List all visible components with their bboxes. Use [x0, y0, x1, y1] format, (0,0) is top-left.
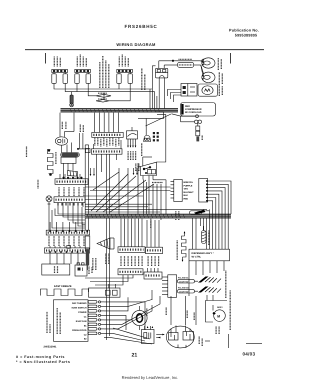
auger motor M3 [213, 310, 226, 322]
timer label column mid [141, 143, 143, 156]
connector J2 [92, 140, 123, 154]
drops band two to strip TS6 [121, 219, 159, 247]
svg-text:POWER: POWER [78, 311, 87, 314]
board pin 2 [88, 305, 104, 308]
strip TS3 pin ticks [58, 203, 82, 206]
inline fuse stack [196, 122, 200, 142]
auger motor enclosure [206, 301, 228, 323]
wire BLK label column [55, 152, 57, 164]
svg-text:04/03: 04/03 [243, 351, 256, 356]
node N power lead [230, 53, 232, 64]
subtitle WIRING DIAGRAM [116, 42, 156, 47]
wire color labels bottom [147, 307, 194, 320]
cold control label [93, 258, 96, 270]
svg-text:EVAP FAN: EVAP FAN [76, 320, 87, 323]
svg-text:GREY: GREY [217, 306, 223, 309]
board pin 4 [88, 314, 104, 317]
svg-text:MAIN SWITCH: MAIN SWITCH [72, 306, 87, 309]
cold control [85, 236, 90, 270]
page number [132, 352, 138, 358]
run capacitor C1 [55, 113, 74, 146]
connector J1 [92, 132, 123, 137]
wires dispenser to switches [196, 261, 224, 275]
strip TS6 labels [121, 256, 159, 266]
wire to timer connector plug [138, 118, 151, 141]
crisper light label [218, 58, 221, 70]
wire H3 right leg [109, 83, 130, 100]
dispenser loop wires right [193, 181, 232, 249]
compressor label [185, 105, 202, 114]
adaptive defrost relay U1 [127, 127, 138, 139]
harness tangle diagonals [91, 172, 154, 212]
dispenser connector P2 [199, 179, 208, 203]
wire relay bends left [167, 90, 181, 103]
ground key symbol [46, 196, 52, 230]
dispenser assembly box [189, 249, 230, 261]
timer connector labels [136, 163, 139, 171]
aux switch box [75, 263, 87, 276]
center air duct heater labels [119, 54, 128, 67]
wire H2 bus [77, 91, 155, 93]
wire YEL-RED boxed label [164, 62, 203, 77]
svg-text:M: M [217, 314, 220, 318]
terminal strip TS7 [118, 269, 162, 279]
terminal strip TS3 [54, 197, 85, 207]
wires terminal block drops [150, 78, 165, 109]
svg-text:* = Non-Illustrated Parts: * = Non-Illustrated Parts [16, 360, 70, 364]
svg-text:21: 21 [132, 352, 138, 358]
water valve to ice maker arrows [156, 334, 165, 339]
strip TS5 pin dots [49, 251, 88, 253]
crisper light LP1 [202, 58, 215, 68]
dispenser wire labels [184, 181, 195, 201]
defrost resistor zigzag [182, 231, 187, 262]
board pin 7 [88, 328, 104, 331]
wire compressor to terminal circles [181, 116, 202, 124]
air damper funnel [97, 238, 114, 249]
solenoid label [208, 231, 210, 246]
run capacitor C1 labels [62, 122, 83, 133]
low ambient switch box [42, 264, 70, 275]
timer exit wires [143, 176, 166, 183]
svg-text:PURPLE: PURPLE [184, 184, 193, 187]
ice maker label [199, 336, 202, 346]
wires board pins to risers [104, 296, 160, 344]
strip TS4 pin dots [49, 230, 88, 232]
splice node SU-100K lower [96, 99, 109, 102]
wire drops band to connector J1 [95, 113, 119, 133]
svg-text:RED: RED [185, 105, 190, 108]
svg-text:W/ OVERLOAD: W/ OVERLOAD [185, 111, 202, 114]
svg-text:FRESH FOOD: FRESH FOOD [72, 329, 87, 332]
wire H3 left leg [118, 83, 120, 89]
svg-text:C1: C1 [84, 315, 88, 318]
power terminal block TB1 [156, 61, 168, 78]
svg-text:TAN: TAN [184, 188, 189, 191]
mullion heater labels [100, 56, 109, 88]
wire band to timer bends [143, 112, 166, 167]
control panel strip TS5 [45, 246, 90, 253]
wire H2 right leg [88, 83, 96, 95]
svg-text:W/ CTRL: W/ CTRL [192, 256, 202, 259]
condenser fan label [219, 85, 222, 96]
wire run to connector circles [146, 114, 199, 126]
svg-text:FCLAM NO: FCLAM NO [178, 287, 189, 290]
condenser fan motor M1 [198, 84, 218, 96]
grey wire label [217, 306, 223, 309]
switches label column [225, 270, 227, 298]
svg-text:RED: RED [184, 198, 189, 201]
dispenser solenoid [202, 226, 207, 244]
footnote non illustrated [16, 360, 70, 364]
svg-text:BRN/YEL: BRN/YEL [184, 181, 194, 184]
connector J2 drops [97, 154, 117, 340]
dispenser micro switch [190, 210, 210, 215]
fast freeze label [54, 285, 72, 288]
footnote fast moving [16, 355, 65, 359]
svg-text:# = Fast-moving Parts: # = Fast-moving Parts [16, 355, 65, 359]
freezer door switch row 1 [178, 277, 222, 284]
H bar wires right of cap [77, 133, 89, 176]
center air duct heater H3 [117, 69, 133, 83]
fuse stack label [201, 135, 203, 140]
splice node SU-100K upper [96, 93, 111, 99]
wire L1 lead-in [152, 66, 155, 89]
defrost thermostat NC box [89, 284, 121, 297]
defrost timer [138, 162, 157, 175]
fast freeze jumper wave [41, 289, 89, 296]
terminal strip TS1 [61, 153, 80, 158]
strip TS5 drops [50, 253, 78, 264]
left margin label column [27, 146, 39, 189]
relay U1 pin labels [128, 151, 136, 160]
terminal strip TS2 labels [59, 187, 84, 196]
title FRS26BH5C [124, 24, 157, 29]
defrost heater H1 labels [54, 57, 60, 67]
terminal strip TS6 [118, 247, 163, 254]
svg-text:240533941: 240533941 [44, 346, 58, 349]
wire H1 right leg [65, 83, 77, 91]
board pin 1 [88, 301, 104, 304]
board pin 5 [88, 319, 104, 322]
defrost timer contact [133, 168, 138, 175]
compressor with overload [181, 103, 216, 117]
svg-text:Rendered by LeadVenture, Inc.: Rendered by LeadVenture, Inc. [122, 375, 179, 380]
start relay PTC [181, 84, 197, 97]
svg-text:DEF THERMO: DEF THERMO [72, 302, 87, 305]
water valve switch label [176, 211, 179, 220]
defrost resistor label [176, 240, 178, 260]
svg-text:DISPENSER ASS'Y *: DISPENSER ASS'Y * [192, 252, 214, 255]
svg-text:FRS26BH5C: FRS26BH5C [124, 24, 157, 29]
evap fan motor M2 [132, 306, 147, 330]
defrost heater H1 [52, 69, 68, 83]
control panel strip TS4 [46, 222, 89, 235]
wire switch rows to auger [207, 295, 213, 301]
nested wire loops lower left [52, 207, 85, 228]
defrost heater H2 labels [77, 54, 86, 67]
node L1 power lead [45, 53, 47, 64]
strip TS4 labels [49, 236, 84, 246]
svg-text:5995389805: 5995389805 [235, 34, 258, 38]
freezer door connector [162, 275, 177, 298]
harness tangle verticals [85, 163, 166, 230]
main harness bus band [61, 108, 179, 112]
ice maker water valve [142, 326, 155, 344]
vertical jog resistor element [47, 149, 53, 176]
relay U1 pins with arrows [127, 139, 136, 148]
fresh food light label [219, 72, 222, 85]
freezer door switch row 2 [178, 287, 222, 294]
wire label LT.BLU [179, 58, 193, 60]
svg-text:DOOR SW: DOOR SW [179, 290, 188, 293]
defrost heater H2 [75, 69, 91, 83]
solenoid label column [150, 218, 152, 228]
wire H1 bottom to bus [54, 83, 152, 89]
svg-text:COMPRESSOR: COMPRESSOR [185, 108, 202, 111]
terminal code block [153, 132, 159, 141]
board pin 8 [88, 332, 104, 335]
control board terminal texts [72, 302, 88, 341]
fuse F1 [70, 92, 74, 107]
fresh food light LP2 [202, 72, 215, 82]
harness arrow pins left [90, 168, 95, 176]
dispenser connector P1 [171, 180, 183, 202]
bottom right wires [205, 334, 262, 348]
inter-strip jumper box [67, 245, 71, 248]
top border line [25, 49, 264, 51]
auger motor note column [229, 290, 231, 330]
svg-text:C2: C2 [84, 333, 88, 336]
auger motor label [216, 326, 219, 334]
main bus band two [85, 214, 231, 218]
svg-text:BLK: BLK [184, 194, 189, 197]
small junction box [86, 149, 91, 153]
defrost control wedge [68, 171, 78, 177]
svg-text:DOOR SW: DOOR SW [179, 280, 188, 283]
svg-text:Publication No.: Publication No. [229, 29, 259, 33]
board part number [44, 346, 58, 349]
svg-text:BLU/WHT: BLU/WHT [184, 191, 195, 194]
connector J1 pin labels [95, 138, 119, 147]
adaptive defrost box [61, 157, 76, 177]
wire H2 legs [76, 83, 78, 91]
junction dots row above TS2 [63, 177, 83, 179]
wire LT.BLU to lamps [159, 59, 204, 64]
svg-text:E1: E1 [84, 324, 87, 327]
timer label column [142, 68, 145, 90]
svg-text:FCLAM NC: FCLAM NC [178, 277, 189, 280]
wire capacitor to terminal pill [62, 143, 72, 153]
strip TS7 exit wires [85, 268, 158, 285]
watermark [122, 375, 179, 380]
terminal strip TS2 [55, 174, 88, 184]
riser wires to ice maker [145, 261, 196, 330]
control board box [54, 300, 89, 342]
harness tangle horizontals [85, 187, 207, 212]
svg-text:E2: E2 [84, 337, 87, 340]
air damper label [106, 253, 109, 264]
aux switch labels [89, 266, 92, 274]
board pin 6 [88, 323, 104, 326]
control board left label [47, 308, 60, 334]
board pin 3 [88, 310, 104, 313]
date code [243, 351, 256, 356]
svg-text:WIRING DIAGRAM: WIRING DIAGRAM [116, 42, 156, 47]
publication number label [229, 29, 259, 38]
svg-text:FAST FREEZE: FAST FREEZE [54, 285, 72, 288]
ice maker ellipse [166, 326, 194, 349]
